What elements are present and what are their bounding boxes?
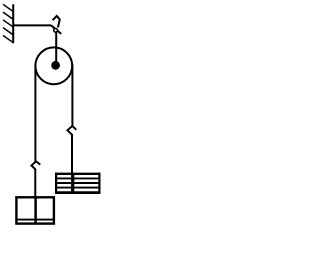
right slotted weight slat line 2 xyxy=(55,182,101,184)
wall hatch 2 xyxy=(3,12,13,19)
left rope upper segment xyxy=(34,65,36,162)
wall hatch 5 xyxy=(3,35,13,42)
pulley hook at top xyxy=(53,16,60,27)
right slotted weight bottom edge xyxy=(55,191,101,194)
right rope lower segment xyxy=(71,134,73,175)
ceiling support wall line xyxy=(12,4,14,43)
right slotted weight top edge xyxy=(55,173,101,175)
rope from ring to pulley axle xyxy=(55,33,57,66)
wall hatch 3 xyxy=(3,20,13,27)
left weight box inner line xyxy=(15,219,54,221)
bracket rod diagonal end xyxy=(51,25,61,34)
pulley axle xyxy=(51,61,60,70)
right rope upper segment xyxy=(71,65,73,127)
left weight box outline xyxy=(16,197,54,223)
wall hatch 4 xyxy=(3,28,13,35)
right slotted weight right edge xyxy=(98,173,100,194)
suspension ring xyxy=(54,28,58,32)
bracket rod horizontal xyxy=(13,24,51,26)
right rope hook xyxy=(67,126,76,134)
wall hatch 1 xyxy=(3,4,13,11)
right slotted weight slat line 1 xyxy=(55,177,101,179)
right slotted weight slat line 3 xyxy=(55,187,101,189)
left rope lower segment xyxy=(34,169,36,198)
left rope hook xyxy=(31,161,40,169)
pulley wheel xyxy=(35,47,72,84)
right weight hanger rod xyxy=(71,173,74,193)
right slotted weight left edge xyxy=(55,173,57,194)
left weight hanger rod xyxy=(34,197,37,225)
